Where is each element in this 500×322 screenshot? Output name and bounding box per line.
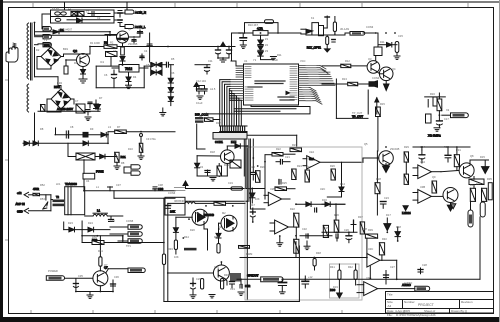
- svg-text:U4: U4: [86, 179, 90, 183]
- svg-text:C11: C11: [208, 59, 213, 63]
- svg-text:POWER: POWER: [48, 269, 58, 273]
- svg-text:CON4: CON4: [372, 76, 380, 80]
- svg-text:D6: D6: [171, 71, 175, 75]
- svg-text:F1 2A: F1 2A: [52, 6, 59, 10]
- svg-text:U2C: U2C: [320, 187, 325, 191]
- svg-text:D7: D7: [99, 96, 103, 100]
- svg-text:R47: R47: [250, 203, 255, 207]
- svg-text:X2: X2: [446, 108, 450, 112]
- svg-text:D5: D5: [171, 57, 175, 61]
- svg-text:Q5: Q5: [364, 142, 368, 146]
- svg-text:C13: C13: [238, 31, 243, 35]
- svg-text:C4: C4: [144, 49, 148, 53]
- svg-text:C28: C28: [422, 263, 427, 267]
- svg-text:File:: File:: [387, 313, 393, 317]
- svg-text:R51: R51: [98, 249, 103, 253]
- svg-text:ISP: ISP: [204, 112, 208, 116]
- svg-text:2SC945: 2SC945: [128, 42, 138, 46]
- svg-text:C35: C35: [78, 274, 83, 278]
- svg-text:R45: R45: [214, 235, 219, 239]
- svg-text:C1: C1: [86, 10, 90, 14]
- svg-text:D13: D13: [247, 187, 252, 191]
- svg-text:R4: R4: [74, 61, 78, 65]
- svg-text:R8: R8: [121, 161, 125, 165]
- svg-text:D24: D24: [88, 221, 93, 225]
- svg-text:AUDIO: AUDIO: [404, 281, 412, 285]
- svg-text:AMP IN: AMP IN: [16, 202, 25, 206]
- svg-text:SPKOUT: SPKOUT: [247, 274, 259, 278]
- svg-text:Number: Number: [404, 300, 415, 304]
- svg-text:C32: C32: [302, 227, 307, 231]
- svg-text:R42: R42: [348, 265, 353, 269]
- svg-text:ACIN_L: ACIN_L: [135, 25, 146, 29]
- svg-text:C25: C25: [324, 226, 329, 230]
- svg-text:D10: D10: [128, 147, 133, 151]
- svg-text:C2: C2: [97, 16, 101, 20]
- svg-text:C23: C23: [384, 196, 389, 200]
- svg-text:R27: R27: [306, 165, 311, 169]
- svg-text:R29: R29: [404, 145, 409, 149]
- svg-text:R26: R26: [330, 164, 335, 168]
- svg-text:R35: R35: [487, 177, 492, 181]
- svg-text:Q3: Q3: [368, 57, 372, 61]
- svg-text:Drawn By:: Drawn By:: [451, 309, 465, 313]
- svg-text:Q2: Q2: [73, 49, 77, 53]
- svg-text:R36: R36: [334, 213, 339, 217]
- svg-text:R16: R16: [430, 92, 435, 96]
- svg-text:C12 104: C12 104: [196, 79, 206, 83]
- svg-text:D22: D22: [290, 207, 295, 211]
- svg-text:C38: C38: [158, 183, 163, 187]
- svg-text:R49: R49: [168, 247, 173, 251]
- svg-text:Y1: Y1: [253, 58, 257, 62]
- svg-text:C17: C17: [444, 117, 449, 121]
- svg-text:C27: C27: [390, 265, 395, 269]
- svg-text:LF1: LF1: [56, 182, 61, 186]
- svg-text:D18: D18: [396, 225, 401, 229]
- svg-text:A1.5: A1.5: [210, 87, 216, 91]
- svg-text:BR2: BR2: [54, 85, 60, 89]
- svg-text:C15: C15: [398, 34, 403, 38]
- svg-text:C21: C21: [285, 155, 290, 159]
- svg-text:R25: R25: [282, 181, 287, 185]
- svg-text:U3A: U3A: [420, 160, 425, 164]
- svg-text:1N4007: 1N4007: [63, 28, 73, 32]
- svg-text:D12: D12: [232, 139, 237, 143]
- svg-text:U3B: U3B: [420, 185, 425, 189]
- svg-text:10K: 10K: [255, 197, 260, 201]
- svg-text:C7: C7: [75, 99, 79, 103]
- svg-text:C19: C19: [228, 181, 233, 185]
- svg-text:ACIN_N: ACIN_N: [135, 11, 146, 15]
- svg-text:BR1: BR1: [44, 43, 50, 47]
- svg-text:C31: C31: [230, 287, 235, 291]
- svg-text:Q9: Q9: [432, 175, 436, 179]
- svg-text:R23: R23: [292, 143, 297, 147]
- svg-text:C36: C36: [114, 275, 119, 279]
- svg-text:R41: R41: [330, 265, 335, 269]
- svg-text:K1: K1: [311, 16, 315, 20]
- svg-text:TP_OUT: TP_OUT: [352, 111, 363, 115]
- svg-text:CON5: CON5: [126, 219, 134, 223]
- svg-text:R32: R32: [470, 183, 475, 187]
- svg-text:Q8: Q8: [470, 154, 474, 158]
- svg-text:C20: C20: [250, 165, 255, 169]
- svg-text:R40: R40: [382, 237, 387, 241]
- svg-text:IC1: IC1: [100, 60, 105, 64]
- svg-text:D16: D16: [322, 198, 327, 202]
- svg-text:2SC945: 2SC945: [390, 147, 400, 151]
- svg-text:LM324: LM324: [402, 211, 411, 215]
- svg-text:R52: R52: [40, 183, 45, 187]
- svg-text:TDA2030: TDA2030: [65, 182, 77, 186]
- svg-text:4.7R: 4.7R: [257, 27, 263, 31]
- svg-text:Q10: Q10: [214, 265, 219, 269]
- svg-text:D17: D17: [386, 213, 391, 217]
- svg-text:GND: GND: [272, 58, 278, 62]
- svg-text:+12: +12: [17, 191, 22, 195]
- svg-text:Q7: Q7: [104, 263, 108, 267]
- svg-text:R39: R39: [368, 228, 373, 232]
- svg-text:R46: R46: [224, 273, 229, 277]
- svg-text:RLY_OPT1: RLY_OPT1: [307, 46, 322, 50]
- svg-text:TP1: TP1: [126, 244, 131, 248]
- svg-text:D15: D15: [480, 155, 485, 159]
- svg-text:R20: R20: [260, 165, 265, 169]
- svg-text:M1: M1: [196, 211, 200, 215]
- svg-text:IRF9540: IRF9540: [174, 199, 185, 203]
- svg-text:FUSE: FUSE: [96, 170, 104, 174]
- svg-text:C6: C6: [104, 73, 108, 77]
- svg-text:10K: 10K: [174, 255, 179, 259]
- svg-text:D11: D11: [380, 40, 385, 44]
- svg-text:C29: C29: [196, 277, 201, 281]
- svg-text:C42: C42: [245, 284, 251, 288]
- svg-text:U2A: U2A: [309, 150, 314, 154]
- svg-text:R34: R34: [476, 182, 481, 186]
- svg-text:R53: R53: [40, 197, 45, 201]
- svg-text:U2A: U2A: [309, 157, 314, 161]
- svg-text:R2: R2: [110, 41, 114, 45]
- svg-text:470R: 470R: [33, 188, 39, 191]
- svg-text:R12: R12: [345, 59, 350, 63]
- svg-text:D9: D9: [90, 127, 94, 131]
- svg-text:R6: R6: [86, 117, 90, 121]
- svg-text:R15: R15: [380, 102, 385, 106]
- svg-text:D4: D4: [133, 75, 137, 79]
- svg-text:TP_OUT: TP_OUT: [352, 115, 363, 119]
- svg-text:C8: C8: [70, 125, 74, 129]
- svg-text:U3C: U3C: [368, 247, 373, 251]
- svg-text:X2 6MHz: X2 6MHz: [428, 134, 441, 138]
- svg-text:C26: C26: [344, 228, 349, 232]
- svg-text:C34: C34: [110, 219, 115, 223]
- svg-text:R1 100K: R1 100K: [90, 41, 100, 45]
- svg-text:M2: M2: [222, 211, 226, 215]
- svg-text:CON3: CON3: [366, 25, 374, 29]
- svg-text:U2B: U2B: [270, 187, 275, 191]
- svg-text:D14: D14: [340, 182, 345, 186]
- svg-text:JD-1AN: JD-1AN: [340, 27, 349, 31]
- svg-text:D2: D2: [36, 48, 40, 52]
- svg-text:Revision: Revision: [461, 300, 473, 304]
- svg-text:AC100-240V: AC100-240V: [57, 107, 73, 111]
- svg-text:R22: R22: [276, 147, 281, 151]
- svg-text:VCC: VCC: [300, 59, 306, 63]
- svg-text:R37: R37: [358, 215, 363, 219]
- svg-text:R7: R7: [117, 125, 121, 129]
- svg-text:PWM: PWM: [246, 252, 252, 256]
- svg-text:R13: R13: [342, 77, 347, 81]
- svg-text:D19: D19: [333, 285, 338, 289]
- svg-text:A4: A4: [388, 304, 392, 308]
- svg-text:GND: GND: [17, 210, 23, 214]
- svg-text:BR1: BR1: [63, 47, 69, 51]
- svg-text:L1: L1: [97, 209, 101, 213]
- svg-text:R19: R19: [224, 163, 229, 167]
- svg-text:2SK: 2SK: [170, 210, 175, 214]
- svg-text:0.1uF: 0.1uF: [196, 101, 203, 105]
- svg-text:D:\PROT99SE\MyDesign.ddb: D:\PROT99SE\MyDesign.ddb: [396, 313, 436, 317]
- svg-text:R18: R18: [210, 150, 215, 154]
- svg-text:R21: R21: [121, 155, 127, 159]
- svg-text:C30: C30: [158, 187, 164, 191]
- svg-text:+12: +12: [308, 275, 313, 279]
- svg-text:R31: R31: [456, 148, 461, 152]
- svg-text:R24: R24: [297, 164, 302, 168]
- svg-text:C3: C3: [113, 49, 117, 53]
- svg-text:C9 470u: C9 470u: [146, 137, 156, 141]
- svg-text:C37: C37: [116, 183, 121, 187]
- svg-text:D23: D23: [68, 221, 73, 225]
- svg-text:IRF9540: IRF9540: [204, 213, 215, 217]
- svg-text:R50: R50: [92, 235, 97, 239]
- svg-text:R28: R28: [376, 177, 381, 181]
- svg-text:PROJECT: PROJECT: [418, 303, 434, 307]
- svg-text:U1: U1: [244, 59, 248, 63]
- svg-text:R38: R38: [362, 227, 367, 231]
- svg-text:D20: D20: [190, 228, 195, 232]
- svg-text:BR2: BR2: [57, 81, 63, 85]
- svg-text:Q4: Q4: [392, 67, 396, 71]
- svg-text:D8: D8: [40, 127, 44, 131]
- svg-text:CON6: CON6: [168, 191, 176, 195]
- svg-text:7812: 7812: [125, 67, 132, 71]
- svg-text:R17: R17: [216, 121, 221, 125]
- svg-text:C5 104: C5 104: [146, 63, 155, 67]
- svg-text:R10 4K7: R10 4K7: [248, 23, 259, 27]
- svg-text:R44: R44: [184, 235, 189, 239]
- svg-text:Title: Title: [387, 293, 393, 297]
- svg-text:R48: R48: [316, 251, 321, 255]
- svg-text:Q1: Q1: [128, 27, 132, 31]
- svg-text:R11: R11: [277, 53, 282, 57]
- svg-text:CON1: CON1: [215, 140, 223, 144]
